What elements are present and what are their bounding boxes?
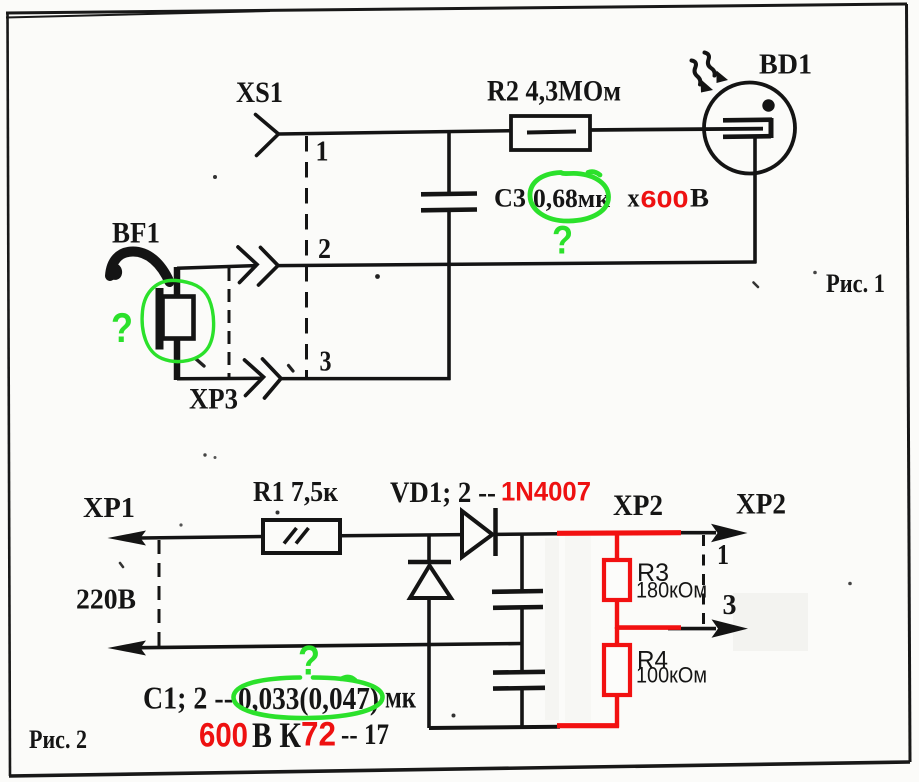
BD1 electrode right side [769,118,774,138]
svg-text:В: В [690,184,709,213]
wire to XP2 pin 3 [668,627,716,631]
green circle around BF1 [142,280,214,361]
BF1 membrane bar [156,288,164,350]
capacitor C3 branch wire from row1 [447,132,451,194]
svg-text:180кОм: 180кОм [636,578,707,603]
svg-text:1: 1 [717,540,729,571]
svg-text:?: ? [298,637,320,684]
wire row3 left (BF1 loop bottom) [177,377,263,381]
BD1 cathode wire down [753,137,757,263]
svg-text:Рис. 2: Рис. 2 [29,725,87,754]
svg-text:ХР3: ХР3 [189,383,238,416]
whiteout smudge near XP2 pins [733,593,808,651]
svg-text:BD1: BD1 [759,49,812,81]
middle rail wire from XP1 [140,644,521,648]
capacitor C2 plates [493,669,545,674]
wire C3 down to row3 node [447,210,451,380]
connector XP3 dashed line [228,268,231,379]
connector XS1 dashed line [305,136,308,378]
svg-text:220В: 220В [76,584,136,616]
diode VD2 cathode bar [408,560,451,565]
red wire bottom [557,723,619,728]
svg-text:1: 1 [316,137,329,168]
svg-text:?: ? [111,304,133,351]
capacitor C1 plates [492,589,543,594]
svg-text:Рис. 1: Рис. 1 [826,269,885,298]
capacitor C3 plate bottom [421,207,477,212]
BD1 electrode bottom bar [723,134,771,139]
connector XP2 dashed line [702,535,705,632]
red lead R4 to bottom [615,695,619,728]
svg-text:72: 72 [301,716,336,754]
svg-text:ХР2: ХР2 [613,489,663,522]
svg-text:х: х [628,184,640,213]
svg-text:R1 7,5к: R1 7,5к [253,476,338,508]
dust specks [213,175,217,179]
radiation arrow 2 into BD1 [705,53,715,76]
photodetector BD1 circle [704,83,795,174]
wire row1: R2 to BD1 [590,129,763,130]
plug XP1 pin arrow top [108,531,147,546]
svg-text:3: 3 [320,347,332,378]
wire XP1 to R1 [140,537,264,539]
BD1 electrode top bar [723,117,772,122]
diode VD2 triangle [410,566,451,599]
red lead R3 to node [615,600,619,629]
svg-text:R2 4,3МОм: R2 4,3МОм [487,75,621,108]
wire C1 to middle rail and C2 [520,608,524,672]
wire VD1 to node [497,532,560,536]
svg-text:600: 600 [641,187,689,214]
red wire XP2 top [557,530,681,536]
wire VD2 down to bottom rail [427,598,431,728]
wire row3 to C3 node [281,377,451,381]
BF1 top lead [174,267,181,298]
svg-text:0,68мк: 0,68мк [533,184,610,213]
wire row2 left (BF1 loop top) [177,266,257,269]
svg-text:100кОм: 100кОм [636,663,707,688]
green ellipse around 0,033(0,047) [233,677,382,718]
wire C2 to bottom rail [520,688,524,729]
wire R1 to VD1 [340,535,462,536]
red lead to R3 [615,533,619,561]
resistor R3 (red) [604,560,630,600]
BF1 bottom lead [174,338,181,380]
svg-text:-- 17: -- 17 [341,718,389,751]
svg-text:мк: мк [385,679,416,715]
plug XP2 pin 3 arrow [712,619,749,637]
green ellipse around 0,68mk [530,172,609,221]
connector XS1 socket fork [256,115,279,156]
svg-text:BF1: BF1 [112,217,160,250]
svg-text:600: 600 [199,717,248,755]
connector XP1 dashed line [158,540,161,648]
svg-text:?: ? [552,219,573,263]
plug pin chevrons row2 [238,247,257,283]
svg-text:XS1: XS1 [236,76,283,109]
wire row1: XS1 to R2 [279,131,513,134]
svg-text:С3: С3 [494,184,526,213]
svg-text:C1; 2 --: C1; 2 -- [143,680,233,716]
resistor R2 [511,116,590,150]
svg-text:2: 2 [318,234,331,265]
svg-text:VD1; 2 --: VD1; 2 -- [390,476,496,509]
svg-text:3: 3 [723,590,737,621]
radiation arrow 1 into BD1 [692,61,701,85]
diode VD1 [462,511,493,557]
wire to XP2 pin 1 [679,531,716,535]
svg-text:ХР2: ХР2 [736,488,786,521]
bottom rail wire [429,727,560,728]
svg-text:0,033(0,047): 0,033(0,047) [238,680,379,716]
red wire to pin 3 [615,625,681,630]
junction wire down to VD2 [427,535,431,562]
plug XP1 pin arrow bottom [108,641,147,656]
sound emitter BF1 cable [110,252,170,283]
resistor R4 (red) [604,645,630,695]
svg-text:ХР1: ХР1 [83,492,135,524]
resistor R1 [263,520,340,553]
red lead node to R4 [615,627,619,646]
BF1 body box [163,297,194,339]
svg-text:1N4007: 1N4007 [501,477,591,507]
capacitor chain wire top [520,534,524,592]
capacitor C3 plate top [421,191,477,196]
BD1 envelope dot [762,99,774,111]
svg-text:В К: В К [252,715,301,755]
wire row2 to BD1 branch [278,262,757,266]
plug pin chevrons row3 [245,360,264,396]
plug XP2 pin 1 arrow [711,524,748,542]
